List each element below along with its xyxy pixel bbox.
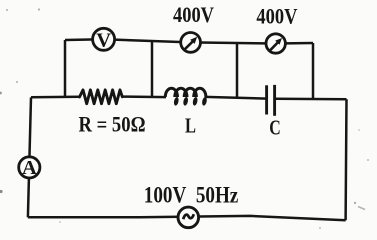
wire top bus from node over R to right branch <box>65 39 313 43</box>
wire vertical right of C <box>312 43 315 99</box>
resistor R1 zigzag <box>80 90 123 104</box>
svg-text:C: C <box>269 115 281 139</box>
wire vertical between R and L <box>151 42 154 97</box>
capacitor C right plate <box>273 85 276 116</box>
wire right outer vertical <box>344 99 347 220</box>
wire middle bus between L and C <box>205 97 267 99</box>
voltmeter U1 across L (400V) <box>181 33 201 53</box>
wire left outer vertical through ammeter <box>28 97 31 217</box>
ammeter A in left branch <box>19 157 40 179</box>
svg-text:R = 50Ω: R = 50Ω <box>79 112 146 137</box>
svg-text:V: V <box>96 29 111 51</box>
voltmeter U2 across C (400V) <box>266 34 285 53</box>
svg-text:L: L <box>185 113 196 137</box>
wire middle bus between R and L <box>122 95 166 98</box>
capacitor C left plate <box>265 85 268 114</box>
inductor L bottom loops <box>173 97 207 107</box>
wire middle bus right of C to right edge <box>275 97 347 100</box>
svg-text:100V 50Hz: 100V 50Hz <box>144 182 239 207</box>
wire middle bus left segment <box>31 96 80 99</box>
wire bottom bus with source <box>28 216 346 220</box>
svg-text:400V: 400V <box>173 2 214 27</box>
wire vertical between L and C <box>236 43 239 98</box>
svg-text:400V: 400V <box>256 4 297 29</box>
wire vertical left of R (node to top bus) <box>64 40 67 97</box>
svg-text:A: A <box>22 157 37 179</box>
inductor L coil humps <box>165 88 206 97</box>
voltmeter V across R <box>93 28 115 51</box>
AC source (100V 50Hz) <box>178 207 199 228</box>
